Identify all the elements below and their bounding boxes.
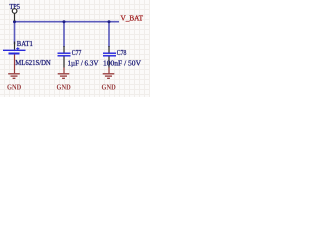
test point TP5 pin bbox=[14, 13, 16, 21]
power port GND pin under C78 bbox=[108, 68, 110, 74]
ground symbol under C77: bar 1 bbox=[58, 73, 70, 75]
capacitor C78 bottom plate bbox=[103, 55, 116, 57]
junction at C77 column bbox=[63, 20, 66, 23]
ground symbol under C78: bar 1 bbox=[103, 73, 115, 75]
svg-text:GND: GND bbox=[102, 83, 116, 92]
capacitor C77 bottom plate bbox=[58, 55, 71, 57]
svg-text:1µF / 6.3V: 1µF / 6.3V bbox=[68, 58, 99, 67]
wire: vertical drop to capacitor C77 bbox=[63, 22, 65, 47]
test point TP5 circle bbox=[12, 9, 17, 14]
power port GND pin under battery bbox=[14, 55, 16, 74]
ground symbol under C77: bar 2 bbox=[60, 75, 67, 77]
svg-text:C78: C78 bbox=[117, 48, 127, 57]
battery BAT1 negative plate bbox=[9, 53, 20, 55]
junction at C78 column bbox=[108, 20, 111, 23]
capacitor C78 pin 1 (top) bbox=[108, 46, 110, 53]
svg-text:V_BAT: V_BAT bbox=[121, 13, 144, 22]
ground symbol under C77: bar 3 bbox=[62, 77, 65, 79]
svg-text:ML621S/DN: ML621S/DN bbox=[15, 58, 51, 67]
svg-text:100nF / 50V: 100nF / 50V bbox=[103, 58, 141, 67]
power port GND pin under C77 bbox=[63, 68, 65, 74]
svg-text:BAT1: BAT1 bbox=[17, 39, 33, 48]
capacitor C78 pin 2 (bottom) bbox=[108, 57, 110, 68]
ground symbol under C78: bar 2 bbox=[105, 75, 112, 77]
svg-text:GND: GND bbox=[7, 83, 21, 92]
capacitor C77 pin 2 (bottom) bbox=[63, 57, 65, 68]
battery BAT1 plus sign bbox=[16, 47, 19, 50]
ground symbol under C78: bar 3 bbox=[107, 77, 110, 79]
ground symbol under battery: bar 1 bbox=[8, 73, 20, 75]
svg-text:C77: C77 bbox=[72, 48, 82, 57]
battery BAT1 positive plate bbox=[3, 49, 26, 51]
wire: main horizontal net V_BAT bbox=[15, 21, 120, 23]
ground symbol under battery: bar 2 bbox=[11, 75, 18, 77]
battery BAT1 pin 1 (top, black) bbox=[14, 42, 16, 50]
svg-text:GND: GND bbox=[57, 83, 71, 92]
capacitor C78 top plate bbox=[103, 52, 116, 54]
wire: vertical drop to capacitor C78 bbox=[108, 22, 110, 47]
wire: vertical drop to battery BAT1 bbox=[14, 22, 16, 44]
ground symbol under battery: bar 3 bbox=[13, 77, 16, 79]
capacitor C77 top plate bbox=[58, 52, 71, 54]
junction at TP5/battery column bbox=[13, 20, 16, 23]
capacitor C77 pin 1 (top) bbox=[63, 46, 65, 53]
